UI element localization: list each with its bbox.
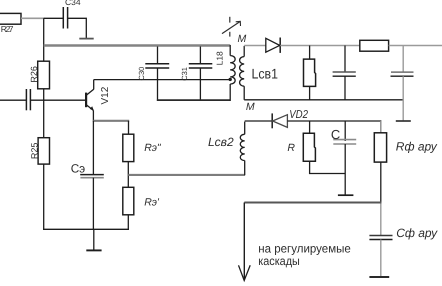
capacitor C31 [180, 47, 212, 102]
wire emitter to Ce [92, 121, 94, 175]
capacitor C34 [63, 0, 81, 29]
wire node down to Rf [380, 121, 382, 133]
resistor Rэ' [123, 187, 160, 215]
svg-text:Rэ": Rэ" [144, 142, 162, 154]
wire R25 to bottom line [43, 164, 45, 230]
svg-text:R26: R26 [29, 66, 39, 83]
svg-text:Lсв1: Lсв1 [252, 66, 279, 82]
svg-text:L18: L18 [214, 51, 224, 65]
ground (AGC filter) [338, 194, 354, 196]
wire base line [30, 99, 86, 101]
resistor Rэ" [123, 134, 162, 161]
inductor L18 [214, 45, 235, 101]
wire AGC line [244, 202, 381, 204]
resistor R25 [30, 138, 50, 164]
wire node to C34 [44, 17, 64, 19]
svg-text:каскады: каскады [258, 254, 300, 268]
supply rail [44, 44, 231, 46]
wire tank bottom [157, 99, 230, 101]
wire R27 to node [21, 17, 44, 19]
svg-text:Rф ару: Rф ару [396, 139, 438, 153]
capacitor (detector filter) [333, 46, 356, 101]
svg-text:Сэ: Сэ [71, 161, 86, 175]
svg-text:R: R [287, 142, 295, 154]
svg-text:C30: C30 [137, 67, 146, 81]
wire collector line to coil tap [94, 79, 231, 81]
ground (near C34) [79, 38, 93, 40]
svg-text:M: M [246, 101, 255, 113]
resistor (detector load) [304, 59, 316, 86]
label: на регулируемые каскады [258, 242, 351, 269]
wire bottom rail (detector) [244, 99, 403, 101]
wire collector up [93, 80, 95, 90]
wire node down to load resistor [309, 46, 311, 60]
inductor Lсв2 [208, 122, 245, 176]
wire base node to R25 [43, 100, 45, 138]
resistor R [287, 133, 315, 161]
capacitor C30 [137, 47, 169, 102]
wire Rf to AGC line [380, 162, 382, 203]
ground (bottom) [86, 229, 101, 250]
svg-text:C34: C34 [65, 0, 81, 7]
wire R bottom to C branch [310, 161, 346, 173]
svg-text:Lсв2: Lсв2 [208, 135, 234, 149]
wire Cf to ground [380, 240, 382, 277]
capacitor Ce [71, 161, 104, 177]
svg-text:Сф ару: Сф ару [396, 226, 438, 240]
arrowhead [239, 265, 251, 280]
wire node down to R [309, 121, 311, 133]
capacitor Сф ару [369, 226, 438, 240]
capacitor (input coupling) [26, 89, 30, 110]
wire Lcb2 top to VD2 [245, 120, 273, 122]
svg-text:V12: V12 [100, 86, 111, 104]
resistor Rф ару [374, 133, 437, 162]
transistor V12 [86, 86, 111, 111]
wire Ce to bottom line [92, 178, 94, 230]
wire bottom line [43, 228, 129, 230]
wire emitter down [92, 110, 94, 121]
wire emitter to Re chain [93, 120, 129, 122]
wire node down to R26 [43, 18, 45, 61]
resistor R27 [0, 13, 21, 34]
wire load resistor to bottom rail [309, 86, 311, 100]
resistor (horizontal, top right) [360, 40, 389, 51]
ground (right) [396, 120, 411, 122]
ground (Cf) [369, 276, 389, 278]
node coil tap [229, 78, 232, 81]
svg-text:M: M [238, 33, 247, 45]
svg-text:R25: R25 [30, 143, 40, 160]
coupling arrow M [222, 17, 241, 37]
wire arrow (AGC output) [243, 203, 245, 281]
svg-text:C: C [331, 127, 340, 142]
wire diode to resistor [280, 45, 360, 47]
diode VD2 [272, 109, 308, 128]
wire Re junction [127, 162, 129, 188]
svg-text:R27: R27 [1, 24, 14, 34]
resistor R26 [29, 61, 50, 89]
wire Re junction to Lcb2 [128, 174, 245, 176]
svg-text:VD2: VD2 [289, 109, 308, 121]
capacitor (right, output) [391, 46, 414, 121]
wire VD2 to AGC filter [287, 120, 381, 122]
wire R26 to base line [43, 89, 45, 101]
wire resistor to right edge [389, 45, 442, 47]
wire C34 to ground [68, 18, 87, 38]
wire input left [0, 99, 26, 101]
svg-text:Rэ': Rэ' [144, 196, 160, 208]
wire Lcb1 top to diode [244, 45, 266, 47]
diode (detector) [266, 38, 280, 53]
svg-text:С31: С31 [180, 67, 189, 81]
inductor Lсв1 [240, 46, 279, 100]
capacitor C [331, 121, 356, 195]
wire Rэ' to bottom line [127, 215, 129, 230]
